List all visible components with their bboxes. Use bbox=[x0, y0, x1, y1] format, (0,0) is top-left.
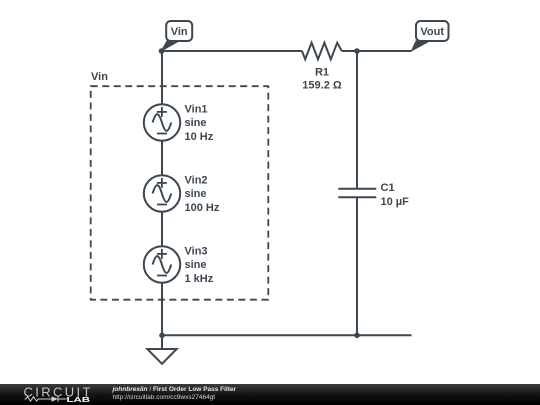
wire bottom bbox=[162, 334, 412, 336]
svg-text:159.2 Ω: 159.2 Ω bbox=[302, 79, 342, 91]
svg-text:Vin1: Vin1 bbox=[185, 104, 208, 116]
svg-text:10 µF: 10 µF bbox=[381, 196, 410, 208]
svg-text:Vin: Vin bbox=[91, 71, 108, 83]
footer title text bbox=[113, 386, 533, 402]
svg-text:Vout: Vout bbox=[420, 26, 444, 38]
node dot C1 bottom junction bbox=[354, 333, 360, 339]
node dot R1/C1 junction bbox=[354, 48, 360, 54]
svg-text:Vin2: Vin2 bbox=[185, 175, 208, 187]
node dot ground junction bbox=[159, 333, 165, 339]
footer logo CircuitLab bbox=[0, 384, 110, 405]
ground bbox=[147, 349, 176, 364]
source Vin3 bbox=[144, 246, 180, 282]
label Vin1 bbox=[185, 104, 214, 143]
svg-text:100 Hz: 100 Hz bbox=[185, 202, 220, 214]
wire left vertical bbox=[161, 51, 163, 335]
flag Vin bbox=[162, 21, 193, 51]
svg-text:C1: C1 bbox=[381, 182, 395, 194]
label R1 bbox=[302, 67, 342, 92]
label Vin3 bbox=[185, 246, 214, 285]
svg-text:R1: R1 bbox=[315, 67, 329, 79]
source Vin2 bbox=[144, 175, 180, 211]
ground stub bbox=[161, 335, 163, 349]
svg-text:Vin: Vin bbox=[171, 26, 188, 38]
source Vin1 bbox=[144, 104, 180, 140]
wire capacitor bottom bbox=[356, 198, 358, 335]
svg-text:sine: sine bbox=[185, 259, 207, 271]
flag Vout bbox=[412, 21, 449, 51]
wire capacitor top bbox=[356, 51, 358, 188]
label Vin2 bbox=[185, 175, 220, 214]
capacitor C1 plates bbox=[338, 188, 376, 190]
node dot Vin bbox=[159, 48, 165, 54]
svg-text:1 kHz: 1 kHz bbox=[185, 273, 214, 285]
wire top left: node to resistor bbox=[162, 50, 303, 52]
svg-text:LAB: LAB bbox=[67, 395, 91, 404]
resistor R1 bbox=[302, 43, 342, 60]
svg-text:10 Hz: 10 Hz bbox=[185, 131, 214, 143]
svg-text:Vin3: Vin3 bbox=[185, 246, 208, 258]
footer bar bbox=[0, 384, 540, 405]
enclosure box Vin (dashed) bbox=[91, 86, 269, 300]
svg-text:sine: sine bbox=[185, 188, 207, 200]
wire resistor to Vout flag bbox=[342, 50, 412, 52]
label C1 bbox=[381, 182, 410, 208]
svg-text:sine: sine bbox=[185, 117, 207, 129]
